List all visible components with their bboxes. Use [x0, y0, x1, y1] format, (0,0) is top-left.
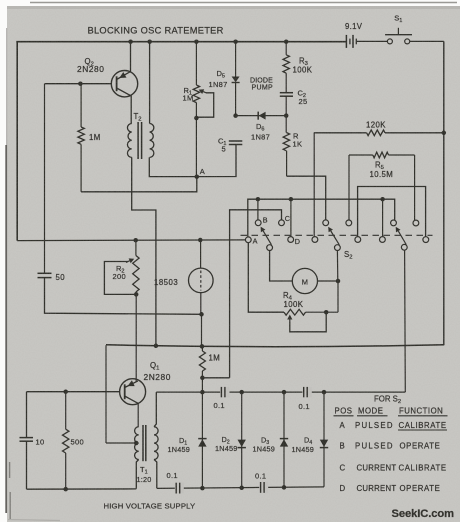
junction dot rail/T2-branch [154, 344, 159, 349]
paper top edge shading [7, 6, 460, 9]
junction dot R4 wiper tie [324, 310, 329, 315]
label C2 value 25 [299, 97, 308, 106]
label R5 value 10.5M [370, 170, 394, 179]
label D1 value 1N459 [168, 445, 191, 454]
label Q2 [85, 57, 94, 68]
scan edge line top [30, 2, 457, 4]
wire wiper1 to meter [270, 251, 293, 282]
wire contact A pole1 to R4 [248, 243, 284, 313]
label D4 value 1N459 [292, 445, 315, 454]
wire T1 secondary bottom [154, 460, 157, 489]
contact D pole2 [355, 237, 361, 243]
wire 18503 bottom lead [200, 293, 202, 315]
contact C pole2 [346, 220, 352, 226]
wire R2 bottom to Q1 emitter [135, 294, 137, 381]
label C2 [298, 89, 306, 100]
contact B pole2 [323, 220, 329, 226]
resistor R3 100K [283, 42, 289, 93]
wire 120K to S2 pole2 A [313, 133, 315, 237]
watermark SeekIC.com [392, 508, 455, 520]
label R2 value 200 [113, 272, 126, 281]
junction dot rail/D5 [233, 39, 238, 44]
label T2 [134, 112, 142, 123]
label 0.1 lower left [167, 471, 178, 480]
capacitor 0.1 (lower right) [259, 482, 268, 493]
junction dot ground/D2 [239, 486, 244, 491]
label S1 [394, 14, 402, 25]
wire bus to contact B pole1 [257, 199, 259, 220]
label R1 [184, 86, 192, 97]
label C pole1 [285, 214, 290, 223]
label 500 [71, 438, 84, 447]
label D2 value 1N459 [215, 444, 238, 453]
contact C pole1 [279, 220, 285, 226]
meter M [292, 268, 317, 293]
wire Q2 base [45, 83, 112, 85]
wire meter to wiper2 node [318, 280, 339, 282]
wire 18503 to lower rail [201, 314, 203, 346]
wiper pole3 [396, 227, 407, 250]
junction dot T1 tap [134, 441, 139, 446]
label 2N280 [77, 64, 104, 74]
transformer T1 [135, 425, 159, 461]
table row C [340, 464, 447, 473]
R2 wiper bracket [104, 258, 134, 294]
wire Q1 base [27, 391, 120, 393]
label D1 [179, 436, 187, 447]
wire T2 primary bottom jog [132, 157, 156, 345]
junction dot rail/R1 [194, 39, 199, 44]
transformer T2 [127, 122, 153, 159]
node A junction [195, 174, 200, 179]
label Q1 2N280 [144, 372, 171, 382]
wire 18503 top lead [200, 240, 202, 268]
junction dot line/18503 [198, 238, 203, 243]
capacitor 10 [20, 438, 34, 442]
label D6 value 1N87 [251, 133, 270, 142]
wire 50-cap branch upper [44, 84, 46, 274]
wire R5 left to S2 pole2 C [348, 155, 350, 220]
scan edge line left [5, 145, 7, 513]
junction dot D5/C1/D6 [233, 113, 238, 118]
label D pole1 [295, 237, 300, 246]
capacitor 0.1 (upper right) [302, 387, 311, 397]
junction dot D6/R 1K [284, 113, 289, 118]
wire R2 top lead [135, 240, 137, 255]
label R5 [375, 161, 384, 172]
table row B [340, 442, 441, 451]
contact A pole1 [245, 237, 251, 243]
label Q1 [150, 361, 159, 372]
label B pole1 [263, 216, 268, 225]
junction dot rail/18503 [200, 344, 205, 349]
junction dot rail/T2 secondary [147, 39, 152, 44]
transistor Q1 2N280 [120, 379, 146, 405]
resistor 500 [63, 392, 69, 490]
label R value 1K [293, 140, 303, 149]
contact B pole3 [391, 220, 397, 226]
wire Q1 collector to T1 [137, 403, 139, 427]
resistor 1M (lower) [199, 346, 205, 378]
wire R1 bottom to node A [195, 120, 197, 177]
capacitor C2 25 [280, 93, 293, 116]
battery 9.1V [337, 35, 387, 48]
label T1 ratio 1:20 [137, 475, 152, 484]
label D2 [222, 435, 230, 446]
label D3 [261, 436, 269, 447]
junction dot 18503/50-line [199, 312, 204, 317]
wire left border drop to node A line [16, 42, 18, 241]
contact A pole2 [312, 237, 318, 243]
junction dot base/1M [78, 81, 83, 86]
junction dot 1M bottom [200, 376, 205, 381]
table header MODE [357, 407, 388, 416]
label 18503 [154, 278, 178, 287]
transistor Q2 2N280 [111, 71, 137, 97]
title BLOCKING OSC RATEMETER [88, 26, 224, 36]
junction dot 120K/right edge [442, 131, 447, 136]
wire T2 secondary to rail [149, 42, 151, 124]
junction dot rail/R3 [284, 39, 289, 44]
wire 50-cap branch lower [45, 278, 202, 315]
wire lower-rail left drop [105, 345, 107, 443]
wire top supply rail [16, 41, 346, 43]
R1 wiper bracket [196, 89, 213, 117]
resistor 120K [314, 130, 444, 136]
wire T1 secondary top [154, 392, 156, 427]
wire node-A-line left [17, 239, 245, 242]
wire HV ground left [27, 488, 137, 490]
capacitor 0.1 (lower left) [175, 483, 184, 494]
wire 10-cap branch [26, 392, 28, 490]
wire S2 D-contacts bridge [358, 187, 426, 237]
wire diode pump node [236, 115, 287, 117]
wiper pole1 [261, 227, 273, 251]
junction dot line/R2 [133, 238, 138, 243]
junction dot ground/D3 [282, 485, 287, 490]
label R2 [116, 264, 124, 275]
resistor R 1K [283, 116, 289, 177]
label node A [200, 167, 205, 176]
label R1 value 1M [183, 94, 194, 103]
capacitor C1 5 [229, 141, 243, 145]
wire bus to contact D pole1 [290, 199, 292, 236]
junction dot bus/A3pos [380, 197, 385, 202]
table title FOR S2 [374, 395, 401, 406]
label R4 [283, 291, 293, 302]
contact A pole3 [380, 237, 386, 243]
junction dot ground/D1 [200, 486, 205, 491]
wire HV ground right [157, 487, 324, 489]
junction dot bus/D1pos [289, 197, 294, 202]
wire T2 secondary bottom to node A [149, 157, 197, 176]
resistor R2 200 variable [133, 256, 139, 295]
contact D pole1 [288, 237, 294, 243]
label R [293, 132, 299, 141]
diode D2 1N459 [238, 392, 246, 488]
wire right edge drop [443, 41, 445, 345]
label R3 value 100K [293, 66, 313, 75]
diode D4 1N459 [320, 392, 328, 487]
label D3 value 1N459 [253, 445, 276, 454]
wire Q2 emitter to rail [130, 42, 132, 72]
label D4 [304, 436, 312, 447]
wire lower rail [106, 345, 444, 347]
label D6 [256, 122, 264, 133]
diode D1 1N459 [198, 392, 206, 488]
wire node A down-left to 1M [81, 177, 197, 192]
table row D [340, 484, 441, 493]
resistor R1 1M variable [193, 42, 199, 120]
diode D6 1N87 [258, 112, 265, 120]
junction dot HV/D3 [282, 390, 287, 395]
wire T1 tap [106, 442, 136, 444]
capacitor 0.1 (upper left) [220, 387, 229, 397]
contact C pole3 [413, 220, 419, 226]
junction dot bus/B1 [256, 197, 261, 202]
label 0.1 upper right [299, 402, 310, 411]
regulator tube 18503 [189, 268, 214, 293]
junction dot HV/D1 [200, 390, 205, 395]
table row A [340, 421, 448, 430]
wire node A to C1 [197, 144, 236, 176]
label A pole1 [253, 236, 258, 245]
label R3 [299, 57, 308, 68]
junction dot R2 bottom [134, 292, 139, 297]
table header POS [334, 407, 354, 416]
label 10 [36, 437, 45, 446]
wire C-contact feed [230, 210, 282, 378]
junction dot meter/R4 node [336, 279, 341, 284]
label 50 [56, 273, 66, 282]
label 120K [366, 121, 386, 130]
wire Q2 collector to T2 [130, 96, 132, 124]
wire HV output line [156, 391, 405, 393]
R4 wiper loop [287, 312, 326, 332]
wiper pole2 [328, 227, 340, 251]
label DIODE PUMP [250, 78, 273, 92]
wire S2 bus [248, 199, 395, 237]
wire R5 right to S2 pole3 C [414, 155, 416, 220]
label 0.1 lower right [255, 472, 266, 481]
label 0.1 upper left [214, 401, 225, 410]
wire R 1K to S2 pole2 B [287, 176, 326, 220]
capacitor 50 [38, 273, 52, 277]
resistor R5 10.5M [349, 152, 415, 158]
label S2 [344, 250, 352, 261]
wire T1 primary bottom [136, 460, 138, 489]
label HIGH VOLTAGE SUPPLY [104, 502, 196, 511]
dashed wiper line S2 [241, 234, 433, 236]
switch S1 [385, 28, 444, 44]
label 9.1V [345, 22, 363, 31]
wire 1M bottom to HV line [201, 378, 203, 392]
label C1 value 5 [222, 145, 226, 154]
junction dot base/500 [63, 389, 68, 394]
diode D3 1N459 [280, 392, 288, 488]
label D5 value 1N87 [209, 80, 228, 89]
label C1 [218, 137, 226, 148]
diode D5 1N87 [232, 42, 240, 116]
contact B pole1 [255, 220, 261, 226]
label 1M upper [89, 133, 101, 142]
label T1 [140, 465, 148, 476]
wire R4 node down [337, 281, 339, 312]
wire 1M bracket to C-feed [202, 377, 229, 379]
label D5 [217, 69, 225, 80]
wire wiper2 down [336, 251, 338, 282]
junction dot HV/D4 [322, 390, 327, 395]
label 1M lower [209, 354, 221, 363]
label R4 value 100K [284, 300, 304, 309]
resistor 1M (Q2 base) [78, 84, 84, 192]
wire bus to contact A pole3 [382, 199, 384, 236]
table header FUNCTION [398, 407, 448, 416]
junction dot ground/500 [63, 487, 68, 492]
resistor R4 100K [284, 309, 338, 315]
junction dot rail/Q2 emitter [128, 39, 133, 44]
contact D pole3 [423, 237, 429, 243]
junction dot R1 bottom [194, 116, 199, 121]
wire wiper3 to HV line [404, 250, 407, 392]
junction dot HV/D2 [239, 390, 244, 395]
